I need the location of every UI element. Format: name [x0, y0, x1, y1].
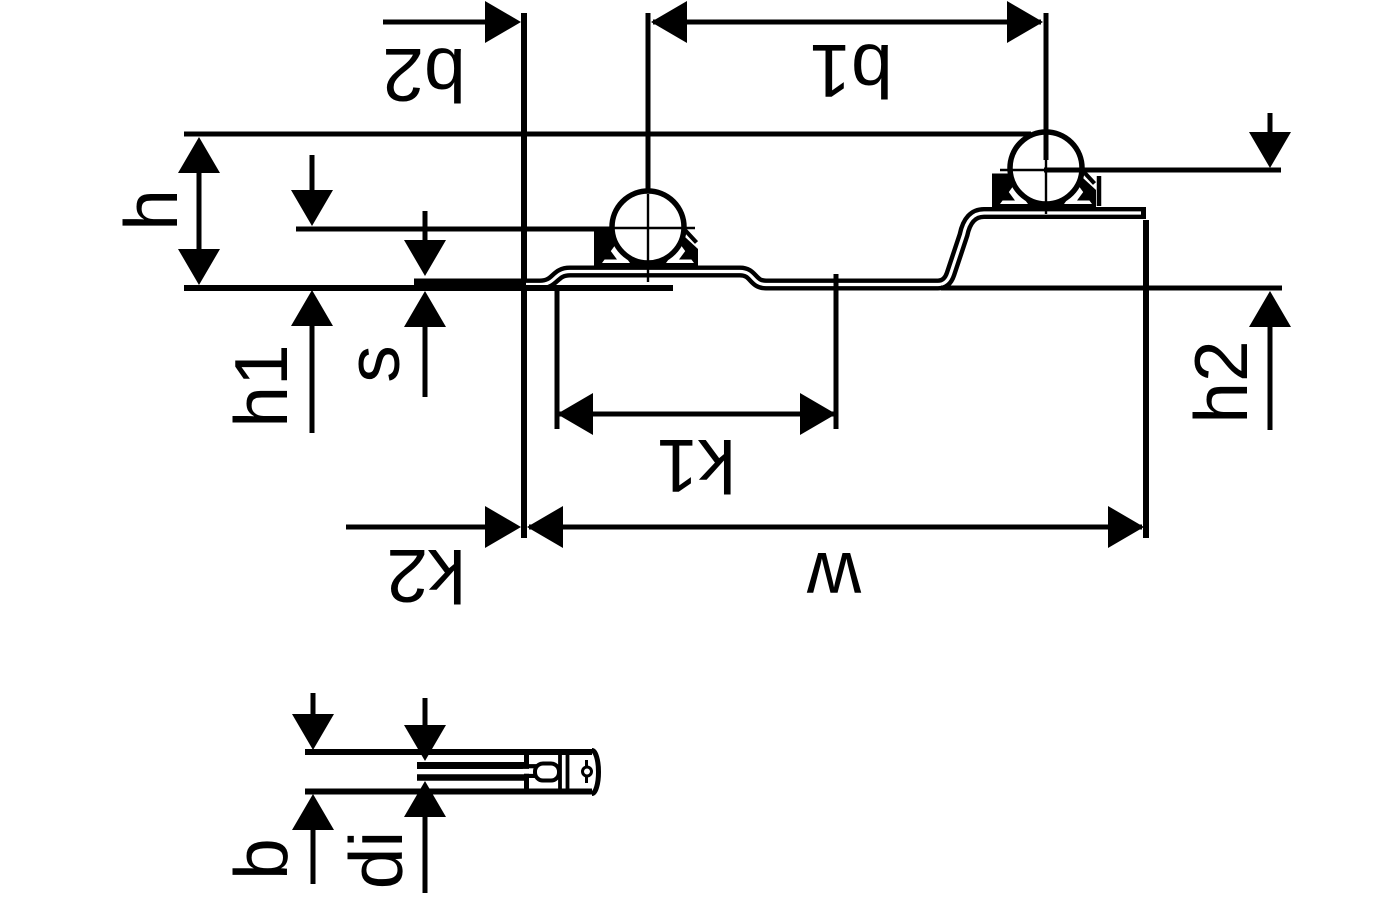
side view box left edge [524, 753, 529, 791]
pipe left crosshair [600, 194, 695, 282]
label b [219, 838, 303, 880]
svg-text:h2: h2 [1179, 340, 1263, 423]
w right extension V6 [1143, 220, 1149, 538]
side view end cap [583, 751, 599, 794]
label s [331, 345, 415, 383]
pipe left circle [612, 191, 684, 263]
dimension h arrows [178, 137, 220, 285]
label k1 [656, 424, 735, 508]
svg-text:b: b [219, 838, 303, 880]
pipe clamp right saddle [992, 170, 1099, 208]
dimension w [527, 506, 1144, 548]
dimension b arrows [292, 693, 334, 884]
rail sheet profile double line [414, 213, 1146, 285]
rail sheet solid left band [414, 279, 526, 291]
top reference line H1 [184, 132, 1031, 137]
dimension s arrows [404, 211, 446, 397]
svg-text:h1: h1 [219, 344, 303, 427]
label di [334, 831, 418, 889]
side view outer bottom line [305, 789, 592, 795]
side view inner top line [417, 762, 526, 769]
label w [806, 537, 862, 621]
svg-text:s: s [331, 345, 415, 383]
dimension k2 [346, 506, 521, 548]
svg-text:k2: k2 [386, 534, 465, 618]
label h [109, 189, 193, 231]
dimension b1 line [651, 1, 1043, 43]
label k2 [386, 534, 465, 618]
extension line V1 [521, 13, 527, 538]
side view outer top line [305, 749, 592, 755]
dimension h1 arrows [291, 155, 333, 433]
svg-text:k1: k1 [656, 424, 735, 508]
right pipe center extension H4 [1044, 168, 1281, 173]
label h1 [219, 344, 303, 427]
pipe right circle [1010, 132, 1082, 204]
svg-text:h: h [109, 189, 193, 231]
k1 right extension V5 [834, 274, 839, 429]
extension V3 overlay into circle [1044, 130, 1049, 160]
extension line V3 right pipe center [1044, 13, 1049, 160]
side view inner bottom line [417, 774, 526, 781]
label h2 [1179, 340, 1263, 423]
side view slot hole [523, 764, 559, 781]
dimension b2 line [383, 1, 521, 43]
left pipe center extension H3 [296, 227, 611, 232]
svg-text:b1: b1 [809, 29, 892, 113]
k1 left extension V4 [555, 290, 560, 429]
dimension di arrows [404, 698, 446, 893]
svg-text:w: w [806, 537, 862, 621]
dimension h2 arrows [1249, 113, 1291, 430]
base reference line H2 right [941, 286, 1282, 291]
label b2 [382, 33, 465, 117]
pipe clamp left saddle [594, 229, 698, 267]
svg-text:b2: b2 [382, 33, 465, 117]
extension line V2 left pipe center [646, 13, 651, 193]
side view double verticals [560, 753, 568, 791]
pipe right crosshair [1000, 135, 1046, 214]
dimension k1 [557, 393, 836, 435]
svg-text:di: di [334, 831, 418, 889]
base reference line H2 left [184, 285, 673, 291]
label b1 [809, 29, 892, 113]
